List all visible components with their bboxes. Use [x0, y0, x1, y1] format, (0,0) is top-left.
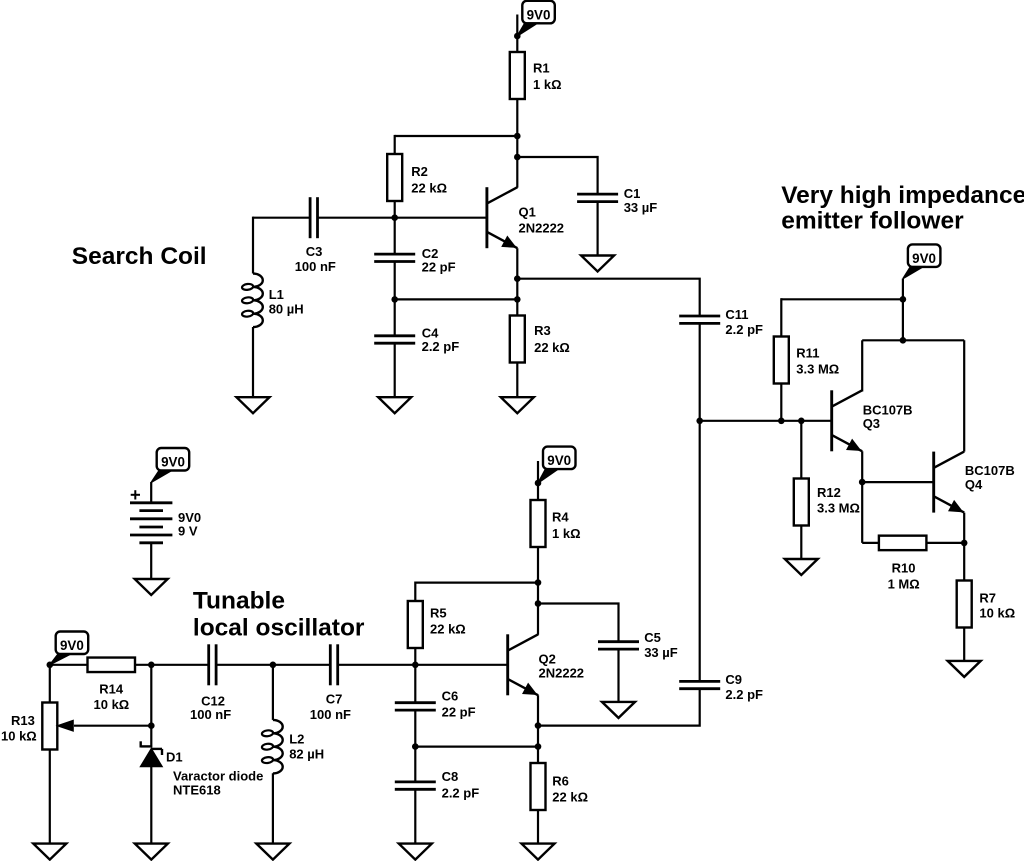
wire R6 to ground	[537, 810, 539, 844]
capacitor C1	[577, 193, 618, 196]
junction R5/C6 node	[412, 662, 419, 669]
power flag 9V0 (oscillator)	[56, 632, 88, 655]
svg-text:9 V: 9 V	[178, 523, 198, 538]
junction R1/R2 rail	[514, 133, 521, 140]
resistor R11	[774, 337, 789, 384]
svg-text:2.2 pF: 2.2 pF	[422, 339, 460, 354]
wire R3 to ground	[516, 363, 518, 398]
svg-text:33 µF: 33 µF	[644, 645, 678, 660]
svg-text:R2: R2	[411, 164, 428, 179]
ground (R6)	[522, 844, 555, 860]
svg-text:R10: R10	[892, 561, 916, 576]
wire collector to C1	[517, 157, 597, 194]
wiper arrow R13	[74, 725, 151, 727]
svg-text:Varactor diode: Varactor diode	[173, 769, 263, 784]
power flag 9V0 (battery)	[157, 448, 190, 471]
svg-text:2.2 pF: 2.2 pF	[725, 322, 763, 337]
capacitor C6	[395, 701, 436, 704]
wire rail to R11	[781, 298, 903, 300]
wire C8 to ground	[414, 789, 416, 843]
junction collector/C5 branch	[535, 600, 542, 607]
svg-text:100 nF: 100 nF	[190, 707, 231, 722]
svg-text:R12: R12	[817, 485, 841, 500]
junction Q1 base node	[391, 214, 398, 221]
ground (C4)	[378, 397, 411, 413]
svg-text:R13: R13	[11, 713, 35, 728]
svg-text:Q4: Q4	[965, 477, 983, 492]
resistor R12	[794, 479, 809, 526]
svg-text:22 kΩ: 22 kΩ	[430, 622, 466, 637]
svg-text:3.3 MΩ: 3.3 MΩ	[796, 362, 839, 377]
resistor R7	[957, 581, 972, 628]
junction emitter/R6 row	[535, 743, 542, 750]
wire R11 top	[780, 298, 782, 336]
wire flag to R4	[537, 461, 539, 500]
junction collector rail	[900, 337, 907, 344]
junction emitter output	[514, 275, 521, 282]
resistor R4	[531, 500, 546, 547]
resistor R1	[510, 52, 525, 99]
transistor Q4	[932, 452, 935, 513]
ground (C8)	[399, 844, 432, 860]
junction flag/R13/R14	[47, 662, 54, 669]
wire flag to battery	[150, 482, 152, 503]
svg-text:C7: C7	[326, 692, 343, 707]
wire R2 to C2	[394, 201, 396, 254]
wire L1 to C3	[253, 217, 310, 219]
wire R12 to ground	[800, 526, 802, 560]
wire collector to C5	[538, 604, 619, 642]
junction Q3 emitter/Q4 base	[859, 479, 866, 486]
svg-text:22 kΩ: 22 kΩ	[411, 180, 447, 195]
wire 9V0 flag to R1	[516, 15, 518, 53]
wire R10 right	[926, 542, 964, 544]
svg-text:100 nF: 100 nF	[295, 259, 336, 274]
wire L1 to ground	[252, 327, 254, 397]
junction Q2 emitter out	[535, 722, 542, 729]
junction wiper/D1	[148, 722, 155, 729]
junction C11/base row	[696, 418, 703, 425]
resistor R5	[408, 601, 423, 648]
varactor diode D1	[139, 741, 141, 747]
wire L1 riser	[252, 217, 254, 274]
svg-text:9V0: 9V0	[60, 638, 84, 653]
wire Q1 emitter to R3	[516, 248, 518, 315]
ground (L1)	[237, 397, 270, 413]
ground (L2)	[256, 844, 289, 860]
capacitor C8	[395, 781, 436, 784]
wire Q4 base	[862, 481, 934, 483]
svg-text:1 kΩ: 1 kΩ	[552, 526, 581, 541]
transistor Q2	[506, 634, 509, 695]
capacitor C9	[679, 680, 720, 683]
svg-text:R6: R6	[552, 773, 569, 788]
junction flag/R11 row	[900, 296, 907, 303]
svg-text:C6: C6	[442, 688, 459, 703]
wire rail to R2	[395, 135, 518, 137]
wire base row C11 to Q3	[700, 420, 832, 422]
wire R1 to Q1 collector	[516, 99, 518, 188]
svg-text:9V0: 9V0	[161, 455, 185, 470]
svg-text:L2: L2	[289, 731, 304, 746]
wire flag to rail	[902, 279, 904, 341]
junction R4/R5 row	[535, 579, 542, 586]
wire R7 to ground	[963, 628, 965, 661]
wire Q3 emitter column	[861, 451, 863, 543]
ground (C1)	[581, 256, 614, 272]
capacitor C12	[207, 644, 210, 685]
wire R13 top	[49, 665, 51, 703]
svg-text:R11: R11	[796, 346, 819, 361]
svg-text:1 kΩ: 1 kΩ	[533, 77, 562, 92]
resistor R2	[387, 154, 402, 201]
battery BT plus sign	[131, 494, 140, 496]
wire C3 to Q1 base	[318, 217, 487, 219]
wire C1 to ground	[596, 202, 598, 256]
svg-text:Q3: Q3	[863, 416, 880, 431]
svg-text:C5: C5	[644, 630, 661, 645]
junction C6/C8 row	[412, 743, 419, 750]
junction flag/R1 wire	[514, 33, 521, 40]
ground (R3)	[501, 397, 534, 413]
junction collector/C1 branch	[514, 154, 521, 161]
wire R5 bottom	[414, 648, 416, 665]
svg-text:emitter follower: emitter follower	[781, 207, 964, 234]
resistor R14	[88, 658, 136, 673]
wire Q4 collector	[963, 340, 965, 451]
ground (C5)	[602, 702, 635, 718]
wire row C4/R3	[395, 298, 518, 300]
wire Q3 collector	[861, 340, 863, 391]
junction L2 node	[270, 662, 277, 669]
inductor L2	[273, 720, 283, 774]
junction R10/R7/Q4 emitter	[961, 540, 968, 547]
resistor R6	[531, 763, 546, 810]
ground (D1)	[135, 844, 168, 860]
svg-text:10 kΩ: 10 kΩ	[94, 697, 130, 712]
wire C4 to ground	[394, 343, 396, 397]
ground (R13)	[33, 844, 66, 860]
transistor Q1	[485, 187, 488, 248]
svg-text:2N2222: 2N2222	[519, 220, 565, 235]
svg-text:Search Coil: Search Coil	[72, 243, 207, 270]
wire R11 bottom	[780, 384, 782, 421]
capacitor C11	[679, 315, 720, 318]
wire Q1 out to C11	[517, 279, 699, 316]
svg-text:10 kΩ: 10 kΩ	[1, 728, 37, 743]
transistor Q3	[830, 390, 833, 451]
battery BT1 9V	[130, 501, 172, 504]
svg-text:33 µF: 33 µF	[624, 200, 658, 215]
svg-text:2.2 pF: 2.2 pF	[725, 687, 763, 702]
wire base node to C6	[414, 665, 416, 703]
junction flag/R4	[535, 480, 542, 487]
junction C2/C4 row	[391, 296, 398, 303]
wire R10 left	[862, 542, 879, 544]
wire C5 to ground	[617, 649, 619, 702]
power flag 9V0 (emitter follower)	[908, 244, 941, 267]
svg-text:9V0: 9V0	[912, 251, 936, 266]
svg-text:C1: C1	[624, 186, 641, 201]
svg-text:Very high impedance: Very high impedance	[781, 182, 1024, 209]
wire R4 to Q2 collector	[537, 547, 539, 635]
svg-text:R1: R1	[533, 60, 550, 75]
junction R14/D1 node	[148, 662, 155, 669]
wire C7 to Q2 base	[338, 664, 508, 666]
wire R13 to ground	[49, 750, 51, 844]
wire R12 top	[800, 421, 802, 479]
capacitor C2	[374, 253, 415, 256]
svg-text:R7: R7	[979, 591, 996, 606]
svg-text:22 pF: 22 pF	[442, 705, 476, 720]
svg-text:local oscillator: local oscillator	[193, 615, 365, 642]
svg-text:22 pF: 22 pF	[422, 260, 456, 275]
capacitor C7	[329, 644, 332, 685]
wire C9 to oscillator out	[538, 689, 700, 726]
svg-text:1 MΩ: 1 MΩ	[888, 576, 920, 591]
junction R11/base row	[778, 418, 785, 425]
wire C11 to C9	[699, 323, 701, 681]
inductor L1	[253, 274, 263, 328]
svg-text:Q2: Q2	[539, 651, 556, 666]
wire C12 to C7	[216, 664, 330, 666]
svg-text:R14: R14	[99, 681, 124, 696]
capacitor C4	[374, 334, 415, 337]
svg-text:C9: C9	[725, 672, 742, 687]
wire R5 row	[415, 583, 538, 601]
svg-text:L1: L1	[269, 287, 284, 302]
svg-text:22 kΩ: 22 kΩ	[552, 790, 588, 805]
wire flag node to R14	[50, 664, 88, 666]
wire D1 cathode	[150, 665, 152, 748]
resistor R10	[879, 536, 927, 551]
power flag 9V0 (Q2)	[543, 447, 576, 470]
wire L2 to ground	[272, 773, 274, 843]
junction emitter/C4 row	[514, 296, 521, 303]
wire collector rail	[862, 339, 964, 341]
svg-text:10 kΩ: 10 kΩ	[979, 606, 1015, 621]
svg-text:NTE618: NTE618	[173, 783, 221, 798]
svg-text:2N2222: 2N2222	[539, 666, 585, 681]
ground (R12)	[785, 559, 818, 575]
wire row C8/R6	[415, 745, 538, 747]
svg-text:82 µH: 82 µH	[289, 747, 324, 762]
wire L2 riser	[272, 665, 274, 720]
svg-text:Tunable: Tunable	[193, 588, 285, 615]
ground (battery)	[135, 579, 168, 595]
svg-text:22 kΩ: 22 kΩ	[534, 340, 570, 355]
wire D1 to ground	[150, 767, 152, 844]
svg-text:R5: R5	[430, 606, 447, 621]
wire Q2 emitter column	[537, 695, 539, 763]
svg-text:9V0: 9V0	[527, 7, 551, 22]
svg-text:9V0: 9V0	[547, 453, 571, 468]
svg-text:C11: C11	[725, 307, 748, 322]
resistor R3	[510, 316, 525, 363]
potentiometer R13	[42, 703, 57, 750]
svg-text:R4: R4	[552, 510, 569, 525]
svg-text:R3: R3	[534, 323, 551, 338]
svg-text:D1: D1	[166, 750, 183, 765]
svg-text:3.3 MΩ: 3.3 MΩ	[817, 501, 860, 516]
svg-text:100 nF: 100 nF	[310, 707, 351, 722]
wire battery to ground	[150, 543, 152, 579]
wire C2 to C4	[394, 262, 396, 336]
capacitor C5	[598, 640, 639, 643]
ground (R7)	[948, 661, 981, 677]
svg-text:2.2 pF: 2.2 pF	[442, 785, 480, 800]
wire Q4 emitter to R7	[963, 513, 965, 581]
capacitor C3	[309, 197, 312, 238]
svg-text:80 µH: 80 µH	[269, 302, 304, 317]
junction R12/base row	[798, 418, 805, 425]
svg-text:Q1: Q1	[519, 205, 536, 220]
svg-text:C3: C3	[306, 244, 323, 259]
power flag 9V0 (R1 rail)	[522, 1, 555, 24]
wire C6 to C8	[414, 710, 416, 782]
svg-text:C8: C8	[442, 769, 459, 784]
wire R14 to C12	[135, 664, 209, 666]
